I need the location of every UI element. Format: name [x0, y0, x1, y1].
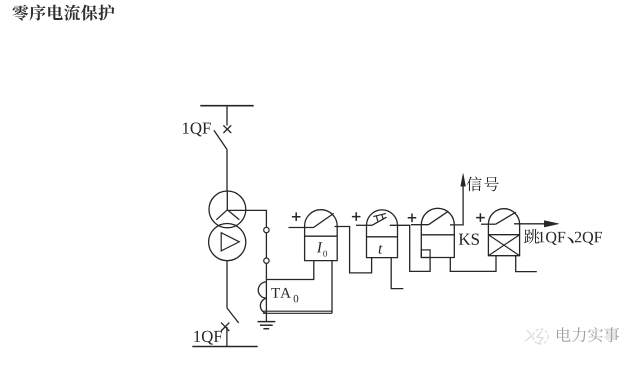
plus sign relay KA — [292, 212, 301, 221]
wire KS contact to signal arrow — [450, 178, 463, 225]
wire trip coil right lead to negative — [516, 256, 537, 272]
label KS — [459, 234, 479, 245]
wire relay I0 coil right lead — [331, 261, 333, 314]
arrow to signal — [461, 174, 466, 187]
label TA0 — [271, 288, 298, 302]
wire KT contact output to KS coil — [390, 225, 430, 271]
wire breaker to bottom bus — [226, 327, 228, 347]
transformer T1 wye winding (top circle) — [209, 191, 246, 228]
label 1QF bottom — [194, 331, 222, 345]
relay KT time t (body) — [367, 210, 398, 258]
label t — [379, 245, 383, 254]
wire KA contact output to KT coil — [335, 227, 372, 273]
relay KM trip output (body) — [488, 209, 519, 256]
watermark 电力实事 — [557, 327, 619, 342]
breaker 1QF top (x mark and blade) — [214, 125, 231, 149]
wire terminal to CT primary and ground — [265, 263, 267, 321]
plus sign relay KS — [408, 214, 417, 223]
label I0 — [317, 242, 327, 256]
wire breaker to transformer — [226, 150, 228, 192]
wire TA0 secondary top to relay I0 coil — [266, 261, 313, 280]
relay KS signal (body) — [421, 208, 454, 257]
terminal lower — [264, 258, 269, 263]
wire transformer to breaker 1QF bottom — [226, 261, 228, 308]
contact blade KM — [496, 212, 516, 224]
arrow to trip breakers — [514, 221, 559, 227]
breaker 1QF bottom (blade and x mark) — [221, 308, 239, 331]
wire input stub to KT contact — [356, 224, 372, 226]
wire input stub to KA contact — [289, 227, 314, 229]
X cross trip coil — [488, 235, 519, 256]
wire neutral from wye to terminals — [227, 210, 266, 227]
busbar — [200, 105, 253, 107]
label 信号 — [467, 177, 499, 192]
plus sign relay KM — [476, 213, 485, 222]
wire between terminals — [265, 233, 267, 258]
wire busbar to breaker 1QF — [226, 106, 228, 126]
plus sign relay KT — [352, 212, 361, 221]
label 跳1QF、2QF — [524, 229, 602, 245]
wire KT coil right lead to negative — [391, 258, 403, 289]
wire input stub to KS contact — [411, 224, 429, 226]
watermark logo — [525, 329, 548, 344]
CT TA0 winding arcs — [258, 282, 266, 314]
wire input stub to KM contact — [481, 223, 496, 225]
transformer T1 delta winding (bottom circle) — [209, 224, 246, 261]
wire TA0 secondary return (double line) — [263, 311, 332, 313]
bus bottom feeder — [192, 346, 257, 348]
contact blade KA — [314, 213, 334, 227]
indicator square KS — [421, 250, 430, 258]
title 零序电流保护 — [13, 5, 115, 21]
relay KA overcurrent I0 (body) — [305, 210, 338, 261]
ground — [258, 322, 276, 329]
label 1QF top — [183, 122, 211, 136]
contact blade KT with delay mark — [372, 214, 387, 226]
contact blade KS — [429, 211, 449, 225]
wire KS coil to trip coil — [450, 256, 496, 272]
terminal upper — [264, 227, 269, 232]
